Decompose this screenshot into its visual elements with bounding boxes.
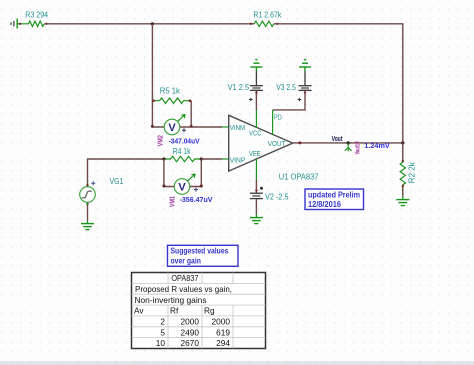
node R4 left junction — [162, 157, 165, 160]
svg-text:10: 10 — [156, 338, 166, 348]
battery V2 — [250, 187, 289, 202]
svg-text:1.24mV: 1.24mV — [364, 141, 390, 150]
op-amp U1 OPA837 — [229, 113, 319, 182]
svg-text:R5 1k: R5 1k — [160, 87, 181, 96]
node Vout junction — [347, 141, 350, 144]
svg-text:OPA837: OPA837 — [171, 273, 198, 283]
ground V3 top (pointing up) — [299, 60, 311, 71]
svg-text:2670: 2670 — [181, 338, 200, 348]
ground (left input, pointing left) — [11, 19, 17, 29]
wire feedback left vertical — [151, 24, 153, 127]
ground V1 top (pointing up) — [250, 60, 262, 71]
svg-text:294: 294 — [216, 338, 230, 348]
svg-text:V1 2.5: V1 2.5 — [228, 83, 250, 92]
svg-text:VM2: VM2 — [155, 135, 164, 146]
svg-text:2490: 2490 — [181, 327, 200, 337]
svg-text:V3 2.5: V3 2.5 — [276, 83, 296, 92]
svg-text:updated Prelim: updated Prelim — [308, 191, 360, 200]
svg-text:619: 619 — [216, 327, 230, 337]
svg-text:2000: 2000 — [181, 317, 200, 327]
svg-text:Non-inverting gains: Non-inverting gains — [135, 295, 207, 305]
source VG1 — [80, 177, 124, 205]
resistor R2 — [400, 143, 417, 196]
wire VG1 minus to ground — [87, 205, 89, 220]
resistor R3 — [17, 11, 48, 27]
wire VINP net from VG1 — [88, 159, 164, 185]
svg-text:VG1: VG1 — [110, 177, 124, 186]
svg-text:R4 1k: R4 1k — [173, 147, 192, 156]
wire V2 to ground — [255, 199, 257, 214]
svg-text:-356.47uV: -356.47uV — [180, 195, 213, 204]
wire VM1 right vertical — [190, 159, 202, 187]
pin VCC stub — [255, 110, 257, 128]
svg-text:Vout1: Vout1 — [356, 144, 362, 155]
svg-text:R1 2.67k: R1 2.67k — [254, 10, 283, 19]
table: proposed R values — [132, 273, 266, 349]
svg-text:V: V — [168, 122, 176, 134]
pin PD stub — [272, 110, 274, 135]
wire VM2 leads — [152, 126, 191, 128]
svg-text:VCC: VCC — [249, 129, 262, 138]
node output terminal — [298, 141, 301, 144]
annotation box: updated Prelim 12/8/2016 — [305, 189, 364, 210]
node R4 right junction — [200, 157, 203, 160]
node VM1 loop corners — [162, 185, 165, 188]
probe Vout1 (purple meter mark) — [355, 142, 362, 155]
svg-text:VM1: VM1 — [168, 196, 177, 207]
window bottom edge strip — [0, 361, 474, 365]
svg-text:Suggested values: Suggested values — [171, 246, 229, 255]
svg-text:Rg: Rg — [204, 306, 215, 316]
node VM2 loop corners — [151, 125, 154, 128]
node right T junction — [401, 141, 404, 144]
svg-text:2000: 2000 — [212, 317, 231, 327]
wire V3 to PD — [273, 91, 305, 110]
svg-text:R2 2k: R2 2k — [408, 161, 417, 183]
wire VM1 left vertical — [164, 159, 175, 187]
svg-text:V: V — [178, 182, 186, 194]
svg-text:Vout: Vout — [332, 136, 343, 143]
wire op-amp output to right — [293, 142, 403, 144]
wire V1 to VCC — [255, 91, 257, 110]
svg-text:-347.04uV: -347.04uV — [169, 136, 200, 145]
wire VM2 to VINM — [191, 126, 222, 128]
ground VG1 — [81, 220, 94, 229]
wire top right + right vertical — [274, 24, 403, 143]
svg-text:2: 2 — [160, 317, 165, 327]
svg-text:R3 294: R3 294 — [25, 11, 48, 20]
probe Vout (green pin marker) — [345, 143, 352, 152]
svg-text:VINP: VINP — [230, 155, 246, 164]
svg-text:VEE: VEE — [249, 149, 261, 158]
wire VEE to V2 — [255, 180, 257, 193]
wire top net — [44, 23, 254, 25]
voltmeter VM2 — [155, 114, 199, 146]
pin VEE stub — [255, 159, 257, 180]
ground R2 — [396, 196, 409, 205]
svg-text:V2 -2.5: V2 -2.5 — [265, 192, 289, 201]
svg-text:VINM: VINM — [230, 123, 246, 132]
wire R5 right vertical — [190, 101, 192, 127]
svg-text:Av: Av — [134, 306, 144, 316]
wire R4 to VINP — [201, 158, 222, 160]
annotation box: Suggested values over gain — [168, 245, 239, 266]
svg-text:U1 OPA837: U1 OPA837 — [279, 173, 319, 182]
pin VINP stub — [222, 158, 229, 160]
svg-text:5: 5 — [160, 327, 165, 337]
wire VG1 to ground — [87, 202, 89, 205]
battery V3 — [276, 71, 311, 101]
node feedback tap on top wire — [151, 22, 154, 25]
voltmeter VM1 — [168, 174, 213, 207]
pin VG1 plus terminal stub — [87, 184, 89, 187]
ground V2 — [250, 214, 263, 223]
svg-text:over gain: over gain — [171, 256, 201, 265]
battery V1 — [228, 71, 263, 101]
svg-text:VOUT: VOUT — [268, 139, 286, 148]
svg-text:12/8/2016: 12/8/2016 — [308, 200, 342, 209]
svg-text:PD: PD — [274, 113, 282, 122]
svg-text:Proposed R values vs gain,: Proposed R values vs gain, — [135, 284, 232, 294]
resistor R1 — [250, 10, 283, 26]
pin VINM stub — [222, 126, 229, 128]
resistor R4 — [164, 147, 201, 162]
svg-text:Rf: Rf — [170, 306, 179, 316]
resistor R5 — [152, 87, 191, 104]
